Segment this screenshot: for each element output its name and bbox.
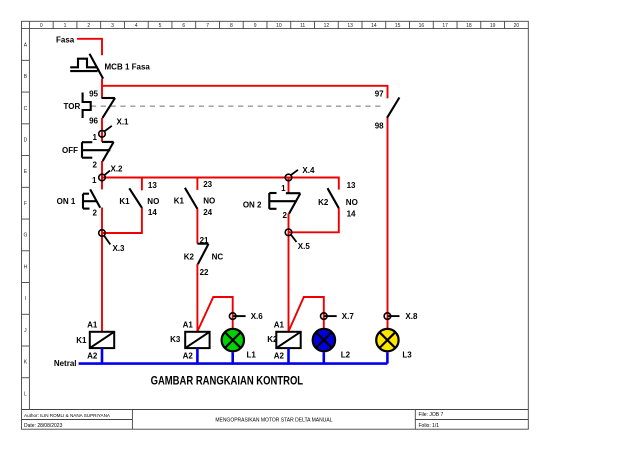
wire top rail to 97 — [102, 86, 388, 99]
lamp L3 (yellow) — [376, 329, 398, 351]
svg-text:NC: NC — [212, 252, 224, 261]
wire branch to lamp L1 via X.6 — [198, 297, 233, 331]
wire ON2 to coil K2 via X.5 — [288, 214, 290, 332]
svg-text:13: 13 — [347, 181, 356, 190]
wire K2 14 to X.5 — [289, 208, 339, 232]
svg-text:22: 22 — [200, 268, 209, 277]
svg-text:NO: NO — [147, 197, 159, 206]
wire ON1 to coil K1 via X.3 — [101, 208, 103, 332]
svg-text:K2: K2 — [184, 252, 195, 261]
svg-text:19: 19 — [490, 23, 496, 29]
wire OFF to ON1 via X.2 — [101, 161, 103, 189]
contact K1 23-24 (NO) — [185, 188, 198, 209]
svg-text:1: 1 — [93, 133, 98, 142]
svg-text:14: 14 — [371, 23, 377, 29]
svg-text:0: 0 — [40, 23, 43, 29]
pushbutton OFF (NC) — [82, 142, 114, 161]
TOR linkage (dashed) — [91, 105, 385, 107]
coil K2 — [276, 332, 300, 348]
svg-text:15: 15 — [395, 23, 401, 29]
svg-text:14: 14 — [347, 209, 356, 218]
svg-text:X.2: X.2 — [111, 164, 124, 173]
svg-text:K1: K1 — [76, 336, 87, 345]
node X.8 — [384, 313, 399, 320]
svg-text:Netral: Netral — [54, 359, 77, 368]
svg-text:TOR: TOR — [64, 102, 81, 111]
svg-text:2: 2 — [87, 23, 90, 29]
node X.7 — [321, 313, 337, 320]
svg-text:Date: 28/08/2023: Date: 28/08/2023 — [24, 423, 63, 429]
lamp L2 (blue) — [313, 329, 335, 351]
coil K1 — [90, 332, 114, 348]
contact K2 13-14 (NO) — [328, 188, 339, 208]
contact K1 13-14 (NO) — [129, 188, 142, 208]
svg-text:NO: NO — [346, 198, 358, 207]
svg-text:H: H — [24, 264, 28, 270]
svg-text:21: 21 — [200, 236, 209, 245]
neutral stub L1 — [231, 352, 234, 363]
svg-text:X.4: X.4 — [302, 166, 315, 175]
svg-text:A1: A1 — [183, 320, 194, 329]
svg-text:A2: A2 — [87, 351, 98, 360]
svg-text:I: I — [25, 296, 26, 302]
svg-text:4: 4 — [135, 23, 138, 29]
svg-text:11: 11 — [300, 23, 305, 29]
pushbutton ON 1 (NO) — [83, 189, 100, 208]
wire MCB to 95 — [101, 79, 103, 98]
TOR heater element — [83, 93, 91, 119]
wire Fasa feed — [77, 39, 102, 55]
wire K1 13 stub — [141, 178, 143, 191]
svg-text:X.5: X.5 — [298, 242, 311, 251]
svg-text:6: 6 — [182, 23, 185, 29]
neutral stub K3 — [196, 348, 199, 364]
svg-text:17: 17 — [442, 23, 448, 29]
wire branch to lamp L2 via X.7 — [289, 297, 324, 331]
svg-text:7: 7 — [206, 23, 209, 29]
node X.3 — [99, 230, 111, 245]
svg-text:K2: K2 — [318, 198, 329, 207]
svg-text:K2: K2 — [267, 335, 278, 344]
svg-text:X.1: X.1 — [117, 118, 130, 127]
svg-text:1: 1 — [281, 184, 286, 193]
wire 24 to 21 — [196, 209, 198, 244]
neutral rail — [79, 348, 388, 364]
TOR NC contact 95-96 — [102, 98, 116, 118]
svg-text:X.3: X.3 — [113, 244, 126, 253]
svg-text:A1: A1 — [87, 320, 98, 329]
node X.1 — [99, 126, 112, 137]
svg-text:L: L — [24, 391, 27, 397]
svg-text:File: JOB 7: File: JOB 7 — [419, 412, 444, 418]
svg-text:ON 2: ON 2 — [243, 201, 262, 210]
MCB 1 Fasa breaker — [70, 54, 103, 79]
svg-text:L2: L2 — [341, 351, 351, 360]
svg-text:MENGOPRASIKAN MOTOR STAR DELTA: MENGOPRASIKAN MOTOR STAR DELTA MANUAL — [215, 418, 332, 424]
svg-text:C: C — [24, 106, 28, 112]
svg-text:24: 24 — [203, 208, 212, 217]
svg-text:D: D — [24, 138, 28, 144]
svg-text:20: 20 — [514, 23, 520, 29]
node X.5 — [285, 229, 296, 242]
coil K3 — [185, 332, 209, 348]
wire K1 23 stub — [196, 178, 198, 190]
svg-text:2: 2 — [283, 211, 288, 220]
svg-text:23: 23 — [203, 180, 212, 189]
neutral stub K1 — [101, 348, 104, 364]
svg-text:13: 13 — [347, 23, 353, 29]
svg-text:2: 2 — [93, 161, 98, 170]
svg-text:K1: K1 — [119, 197, 130, 206]
svg-text:1: 1 — [92, 176, 97, 185]
lamp L1 (green) — [222, 329, 244, 351]
wire 98 to lamp L3 via X.8 — [387, 118, 389, 328]
pushbutton ON 2 (NO) — [269, 193, 300, 214]
svg-text:2: 2 — [93, 208, 98, 217]
svg-text:8: 8 — [230, 23, 233, 29]
svg-text:13: 13 — [148, 181, 157, 190]
red wires — [77, 39, 388, 332]
svg-text:Fasa: Fasa — [56, 35, 75, 44]
svg-text:9: 9 — [254, 23, 257, 29]
svg-text:14: 14 — [148, 208, 157, 217]
svg-text:16: 16 — [419, 23, 425, 29]
node X.2 — [99, 171, 110, 181]
neutral stub L2 — [322, 352, 325, 363]
svg-text:ON 1: ON 1 — [57, 197, 76, 206]
wire K1 14 to X.3 — [102, 208, 142, 233]
node X.6 — [229, 313, 245, 320]
wire 96 to OFF via X.1 — [101, 118, 103, 142]
svg-text:OFF: OFF — [62, 146, 78, 155]
svg-text:Folio: 1/1: Folio: 1/1 — [419, 423, 440, 429]
wire rail 2 (X.2 to K2 13) — [102, 178, 339, 190]
contact K2 21-22 (NC) — [197, 244, 208, 264]
svg-text:1: 1 — [64, 23, 67, 29]
svg-text:GAMBAR RANGKAIAN KONTROL: GAMBAR RANGKAIAN KONTROL — [151, 376, 304, 388]
svg-text:97: 97 — [375, 89, 384, 98]
svg-text:96: 96 — [89, 117, 98, 126]
svg-text:L1: L1 — [247, 351, 257, 360]
svg-text:5: 5 — [159, 23, 162, 29]
svg-text:3: 3 — [111, 23, 114, 29]
svg-text:X.7: X.7 — [342, 312, 355, 321]
drawing frame — [22, 21, 529, 429]
svg-text:F: F — [24, 201, 27, 207]
svg-text:18: 18 — [466, 23, 472, 29]
wire 22 to coil K3 — [196, 264, 198, 332]
svg-text:L3: L3 — [402, 351, 412, 360]
svg-text:NO: NO — [203, 196, 215, 205]
svg-text:95: 95 — [89, 89, 98, 98]
svg-text:Author: ILIN ROMLI & NANA SUPR: Author: ILIN ROMLI & NANA SUPRIYANA — [24, 413, 111, 418]
wire ON2 stub — [288, 178, 290, 194]
svg-text:X.6: X.6 — [251, 312, 264, 321]
TOR NO contact 97-98 — [387, 98, 399, 118]
neutral stub L3 — [386, 352, 389, 363]
svg-text:A1: A1 — [274, 320, 285, 329]
svg-text:10: 10 — [276, 23, 282, 29]
svg-text:A2: A2 — [274, 352, 285, 361]
svg-text:G: G — [23, 233, 27, 239]
svg-text:12: 12 — [324, 23, 330, 29]
svg-text:A2: A2 — [183, 352, 194, 361]
neutral stub K2 — [287, 348, 290, 364]
svg-text:98: 98 — [375, 122, 384, 131]
svg-text:X.8: X.8 — [405, 312, 418, 321]
node X.4 — [285, 170, 298, 181]
svg-text:K3: K3 — [170, 335, 181, 344]
svg-text:MCB 1 Fasa: MCB 1 Fasa — [105, 63, 151, 72]
svg-text:K1: K1 — [174, 196, 185, 205]
black symbols — [70, 54, 399, 264]
